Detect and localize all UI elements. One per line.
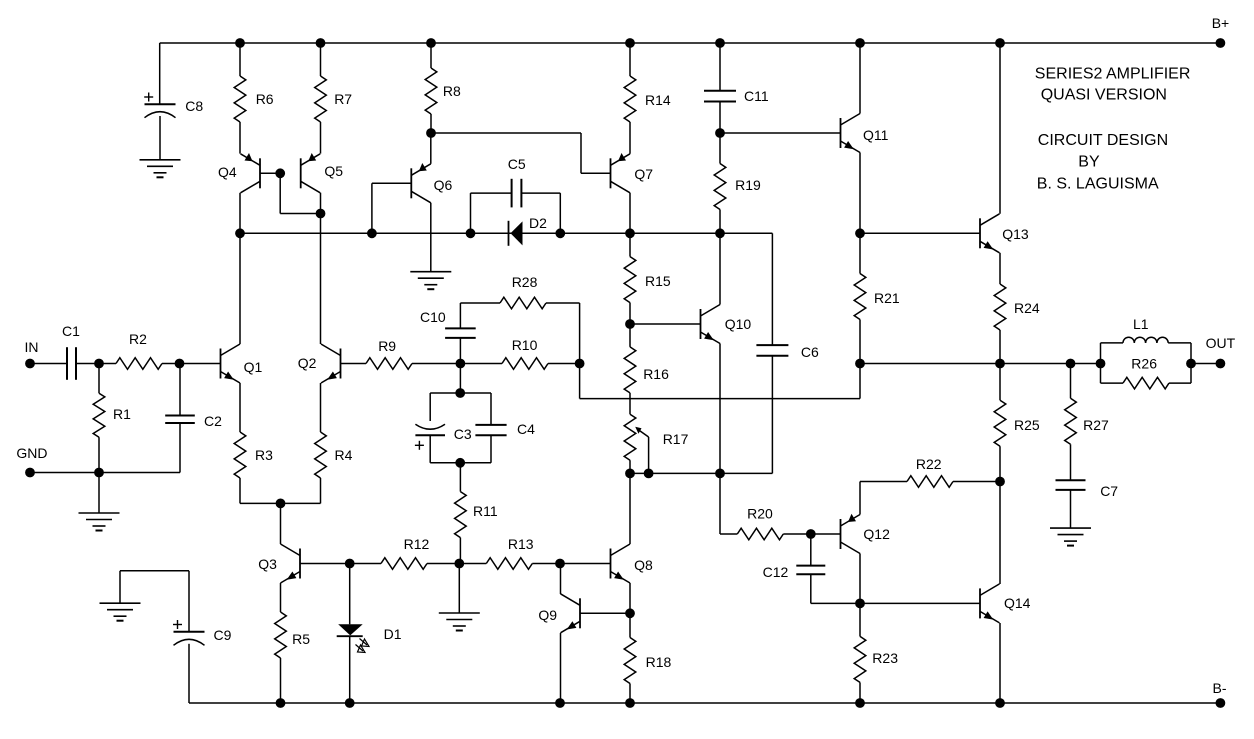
wire Q10 emitter to R20 bbox=[720, 473, 737, 534]
node B- R18 bbox=[625, 698, 635, 708]
resistor R22 bbox=[860, 456, 1000, 487]
transistor Q1 bbox=[221, 344, 263, 383]
wire C11 to Q11 base bbox=[720, 132, 841, 134]
svg-text:GND: GND bbox=[16, 445, 47, 461]
wire Q12 collector down bbox=[859, 554, 861, 604]
svg-text:B-: B- bbox=[1213, 680, 1227, 696]
svg-text:IN: IN bbox=[25, 339, 39, 355]
node B+ R6 bbox=[235, 38, 245, 48]
wire node to C10 col bbox=[459, 338, 461, 364]
svg-text:R21: R21 bbox=[874, 290, 900, 306]
svg-text:R6: R6 bbox=[256, 91, 274, 107]
resistor R13 bbox=[459, 536, 560, 569]
capacitor C2 bbox=[165, 364, 222, 473]
svg-text:C10: C10 bbox=[420, 309, 446, 325]
svg-text:Q7: Q7 bbox=[634, 166, 653, 182]
wire Q14 base bbox=[860, 602, 980, 604]
svg-text:C8: C8 bbox=[185, 98, 203, 114]
svg-text:L1: L1 bbox=[1133, 316, 1149, 332]
svg-text:R1: R1 bbox=[113, 406, 131, 422]
node B+ Q13 bbox=[995, 38, 1005, 48]
trimmer R17 bbox=[624, 414, 688, 473]
wire Q4 collector down bbox=[239, 193, 241, 234]
resistor R25 bbox=[994, 364, 1040, 482]
wire B- rail bbox=[189, 702, 1220, 704]
resistor R7 bbox=[315, 43, 353, 154]
wire output row bbox=[860, 363, 1101, 365]
node C5 right bbox=[555, 228, 565, 238]
svg-text:R4: R4 bbox=[335, 447, 353, 463]
node Q8 emitter Q9 base bbox=[625, 608, 635, 618]
svg-text:R3: R3 bbox=[255, 447, 273, 463]
wire Q9 collector up bbox=[560, 564, 562, 595]
svg-text:Q4: Q4 bbox=[218, 164, 237, 180]
resistor R11 bbox=[455, 463, 498, 564]
svg-text:D1: D1 bbox=[384, 626, 402, 642]
node B+ C11 bbox=[715, 38, 725, 48]
node R10 R28 feedback bbox=[575, 359, 585, 369]
capacitor C5 bbox=[471, 156, 561, 233]
B+ terminal bbox=[1212, 15, 1230, 48]
node GND R1 bbox=[94, 468, 104, 478]
svg-text:R28: R28 bbox=[512, 274, 538, 290]
floating ground bbox=[100, 571, 141, 621]
wire Q14 emitter down bbox=[999, 623, 1001, 703]
svg-text:C7: C7 bbox=[1100, 483, 1118, 499]
svg-text:SERIES2 AMPLIFIER: SERIES2 AMPLIFIER bbox=[1035, 66, 1191, 83]
node R2 C2 Q1 bbox=[175, 359, 185, 369]
B- terminal bbox=[1213, 680, 1227, 708]
node R19 Q10 collector bbox=[715, 228, 725, 238]
svg-text:Q11: Q11 bbox=[863, 127, 889, 143]
capacitor C9 bbox=[120, 571, 232, 703]
node C1 R1 R2 bbox=[94, 359, 104, 369]
transistor Q10 bbox=[701, 305, 752, 344]
resistor R1 bbox=[93, 364, 131, 473]
transistor Q12 bbox=[841, 514, 891, 554]
transistor Q7 bbox=[611, 153, 654, 193]
wire node to R2 bbox=[99, 363, 116, 365]
resistor R10 bbox=[460, 337, 579, 369]
node R20 C12 Q12 base bbox=[806, 529, 816, 539]
svg-text:R23: R23 bbox=[872, 650, 898, 666]
wire R2 to Q1 base bbox=[162, 363, 180, 365]
resistor R12 bbox=[350, 536, 460, 569]
node B- Q9 bbox=[555, 698, 565, 708]
wire Q5 collector to Q2 collector bbox=[320, 193, 322, 344]
node B- D1 bbox=[345, 698, 355, 708]
svg-text:R5: R5 bbox=[292, 631, 310, 647]
svg-text:C12: C12 bbox=[763, 564, 789, 580]
resistor R4 bbox=[315, 383, 353, 503]
wire L1R26 right side bbox=[1190, 343, 1192, 383]
wire Q6 collector down bbox=[430, 203, 432, 272]
wire C3C4 bottom edge bbox=[430, 462, 491, 464]
wire feedback line bbox=[580, 364, 860, 399]
node Q4 Q5 base tie bbox=[275, 168, 285, 178]
wire Q8 collector up bbox=[629, 473, 631, 544]
transistor Q4 bbox=[218, 153, 260, 193]
wire L1R26 left side bbox=[1100, 343, 1102, 383]
svg-text:R17: R17 bbox=[663, 431, 689, 447]
wire Q9 base bbox=[580, 612, 630, 614]
svg-text:R7: R7 bbox=[334, 91, 352, 107]
transistor Q8 bbox=[611, 544, 653, 583]
resistor R15 bbox=[624, 233, 671, 324]
svg-text:R15: R15 bbox=[645, 273, 671, 289]
svg-text:Q2: Q2 bbox=[298, 355, 317, 371]
svg-text:C4: C4 bbox=[517, 421, 535, 437]
node output L1 left bbox=[1096, 359, 1106, 369]
GND terminal bbox=[16, 445, 47, 477]
node output R27 bbox=[1066, 359, 1076, 369]
wire Q9 emitter down bbox=[560, 633, 562, 703]
svg-text:BY: BY bbox=[1078, 154, 1100, 171]
svg-text:R2: R2 bbox=[129, 331, 147, 347]
svg-text:Q1: Q1 bbox=[244, 359, 263, 375]
capacitor C12 bbox=[763, 534, 860, 603]
svg-text:C9: C9 bbox=[214, 627, 232, 643]
capacitor C3 bbox=[415, 393, 472, 463]
node R9 C10 R10 bbox=[456, 359, 466, 369]
diode D1 bbox=[337, 564, 402, 704]
svg-text:R22: R22 bbox=[916, 456, 942, 472]
resistor R26 bbox=[1101, 356, 1192, 389]
node R17 wiper bbox=[644, 469, 654, 479]
resistor R16 bbox=[624, 324, 669, 414]
svg-text:R8: R8 bbox=[443, 83, 461, 99]
wire Q8 emitter down bbox=[629, 583, 631, 613]
wire tail to Q3 bbox=[280, 503, 282, 544]
svg-text:R18: R18 bbox=[646, 654, 672, 670]
wire to OUT bbox=[1191, 363, 1220, 365]
wire Q11 emitter down bbox=[859, 153, 861, 234]
resistor R8 bbox=[425, 43, 461, 133]
capacitor C6 bbox=[756, 344, 819, 473]
resistor R3 bbox=[234, 383, 273, 503]
node R17 bottom bbox=[625, 469, 635, 479]
node Q8 base bbox=[555, 559, 565, 569]
wire tail row bbox=[240, 502, 321, 504]
ground below C8 bbox=[140, 160, 181, 178]
node B+ R7 bbox=[316, 38, 326, 48]
svg-text:Q5: Q5 bbox=[324, 163, 343, 179]
node B+ R14 bbox=[625, 38, 635, 48]
node tail bbox=[276, 499, 286, 509]
node Q11 emitter R21 bbox=[855, 228, 865, 238]
transistor Q5 bbox=[301, 153, 344, 193]
node R15 R16 Q10 base bbox=[625, 319, 635, 329]
capacitor C7 bbox=[1056, 480, 1119, 528]
node Q12 collector R23 Q14 base bbox=[855, 599, 865, 609]
resistor R24 bbox=[994, 253, 1040, 364]
wire Q10 emitter down bbox=[719, 344, 721, 474]
capacitor C11 bbox=[704, 43, 769, 133]
svg-text:Q14: Q14 bbox=[1004, 595, 1031, 611]
resistor R18 bbox=[624, 613, 671, 703]
resistor R21 bbox=[854, 233, 900, 363]
capacitor C4 bbox=[475, 393, 535, 463]
svg-text:C1: C1 bbox=[62, 323, 80, 339]
svg-text:R25: R25 bbox=[1014, 417, 1040, 433]
capacitor C8 bbox=[144, 93, 203, 118]
svg-text:C3: C3 bbox=[454, 426, 472, 442]
svg-text:R26: R26 bbox=[1131, 356, 1157, 372]
svg-text:R9: R9 bbox=[378, 338, 396, 354]
node L1 right bbox=[1186, 359, 1196, 369]
wire Q4 base to tie bbox=[260, 172, 280, 174]
wire Q6 emitter up bbox=[430, 133, 432, 164]
transistor Q9 bbox=[538, 594, 580, 633]
wire node to C3C4 bbox=[459, 364, 461, 394]
wire Q1 collector up bbox=[239, 233, 241, 344]
node B- R23 bbox=[855, 698, 865, 708]
wire Q11 collector up bbox=[859, 43, 861, 114]
ground below C7 bbox=[1050, 528, 1091, 546]
svg-text:R27: R27 bbox=[1083, 417, 1109, 433]
node Q3 base D1 bbox=[345, 559, 355, 569]
wire to Q1 base bbox=[180, 363, 221, 365]
wire Q8 base bbox=[560, 563, 611, 565]
svg-text:D2: D2 bbox=[529, 215, 547, 231]
node Q7 collector R15 bbox=[625, 228, 635, 238]
node Q10 emitter bbox=[715, 469, 725, 479]
resistor R28 bbox=[460, 274, 579, 364]
wire Q6 base bbox=[372, 183, 411, 233]
svg-text:Q13: Q13 bbox=[1002, 226, 1029, 242]
wire Q7 collector down bbox=[629, 193, 631, 234]
svg-text:QUASI VERSION: QUASI VERSION bbox=[1041, 86, 1167, 103]
wire Q7 base path bbox=[431, 133, 611, 173]
svg-text:R10: R10 bbox=[512, 337, 538, 353]
resistor R9 bbox=[341, 338, 461, 369]
svg-text:C5: C5 bbox=[508, 156, 526, 172]
wire C6 top lead bbox=[771, 233, 773, 345]
node Q5 collector tie bbox=[316, 209, 326, 219]
svg-text:Q8: Q8 bbox=[634, 557, 653, 573]
node R11 R12 R13 ground bbox=[454, 559, 464, 569]
node C3C4 top bbox=[455, 388, 465, 398]
wire Q12 base bbox=[811, 533, 841, 535]
svg-text:R13: R13 bbox=[508, 536, 534, 552]
resistor R19 bbox=[714, 133, 761, 233]
svg-text:C11: C11 bbox=[744, 88, 769, 104]
svg-text:CIRCUIT DESIGN: CIRCUIT DESIGN bbox=[1038, 132, 1168, 149]
svg-text:B+: B+ bbox=[1212, 15, 1230, 31]
wire Q10 collector up bbox=[719, 233, 721, 304]
wire C1 to R2 bbox=[76, 363, 99, 365]
wire Q14 collector up bbox=[999, 482, 1001, 585]
node C5 left bbox=[466, 228, 476, 238]
resistor R14 bbox=[624, 43, 671, 154]
svg-text:Q9: Q9 bbox=[538, 607, 557, 623]
resistor R20 bbox=[737, 506, 811, 540]
transistor Q3 bbox=[258, 544, 300, 583]
resistor R5 bbox=[275, 583, 311, 703]
wire C8 top lead bbox=[159, 43, 161, 104]
svg-text:C6: C6 bbox=[801, 344, 819, 360]
svg-text:R24: R24 bbox=[1014, 300, 1040, 316]
IN terminal bbox=[25, 339, 39, 368]
node Q6 base bbox=[367, 228, 377, 238]
capacitor C10 bbox=[420, 303, 476, 338]
wire C8 to ground bbox=[159, 116, 161, 160]
resistor R27 bbox=[1065, 364, 1109, 481]
svg-text:Q6: Q6 bbox=[434, 177, 453, 193]
wire lower node line bbox=[630, 472, 772, 474]
node R25 R22 Q14 collector bbox=[995, 477, 1005, 487]
node B+ R8 bbox=[426, 38, 436, 48]
svg-text:Q10: Q10 bbox=[725, 316, 752, 332]
ground below R1 bbox=[79, 473, 120, 531]
wire VAS node line bbox=[240, 232, 772, 234]
svg-text:R12: R12 bbox=[404, 536, 430, 552]
title text bbox=[1035, 66, 1191, 193]
svg-text:Q12: Q12 bbox=[863, 526, 890, 542]
transistor Q13 bbox=[980, 214, 1029, 253]
node B+ Q11 bbox=[855, 38, 865, 48]
resistor R23 bbox=[854, 603, 898, 703]
svg-text:OUT: OUT bbox=[1206, 335, 1236, 351]
svg-text:C2: C2 bbox=[204, 413, 222, 429]
resistor R2 bbox=[116, 331, 162, 369]
svg-text:R19: R19 bbox=[735, 177, 761, 193]
node R8 Q6 bbox=[426, 128, 436, 138]
transistor Q6 bbox=[411, 163, 452, 203]
wire Q12 emitter up bbox=[859, 482, 861, 515]
svg-text:B. S. LAGUISMA: B. S. LAGUISMA bbox=[1037, 175, 1159, 192]
wire base tie down bbox=[280, 173, 320, 213]
wire IN to C1 bbox=[30, 363, 67, 365]
diode D2 bbox=[509, 215, 548, 246]
wire C3C4 top edge bbox=[430, 392, 491, 394]
OUT terminal bbox=[1206, 335, 1236, 368]
node mirror out bbox=[235, 228, 245, 238]
node R21 output bbox=[855, 359, 865, 369]
svg-text:R14: R14 bbox=[645, 92, 671, 108]
wire Q13 base row bbox=[860, 232, 980, 234]
inductor L1 bbox=[1101, 316, 1192, 343]
node C3C4 bottom bbox=[455, 458, 465, 468]
transistor Q14 bbox=[980, 584, 1031, 623]
wire Q13 collector up bbox=[999, 43, 1001, 214]
wire B+ rail bbox=[160, 42, 1221, 44]
svg-text:R20: R20 bbox=[747, 506, 773, 522]
transistor Q2 bbox=[298, 344, 341, 383]
ground below Q6 bbox=[410, 272, 451, 290]
node output R24 R25 bbox=[995, 359, 1005, 369]
svg-text:R11: R11 bbox=[473, 503, 498, 519]
svg-text:Q3: Q3 bbox=[258, 556, 277, 572]
node B- R5 bbox=[276, 698, 286, 708]
capacitor C1 bbox=[62, 323, 80, 380]
wire Q3 base bbox=[300, 563, 350, 565]
wire GND row bbox=[30, 472, 180, 474]
node C11 R19 bbox=[715, 128, 725, 138]
node B- Q14 bbox=[995, 698, 1005, 708]
ground below R12 R13 bbox=[439, 564, 480, 631]
wire Q10 base bbox=[630, 323, 701, 325]
resistor R6 bbox=[234, 43, 274, 154]
svg-text:R16: R16 bbox=[643, 366, 669, 382]
transistor Q11 bbox=[841, 114, 889, 153]
